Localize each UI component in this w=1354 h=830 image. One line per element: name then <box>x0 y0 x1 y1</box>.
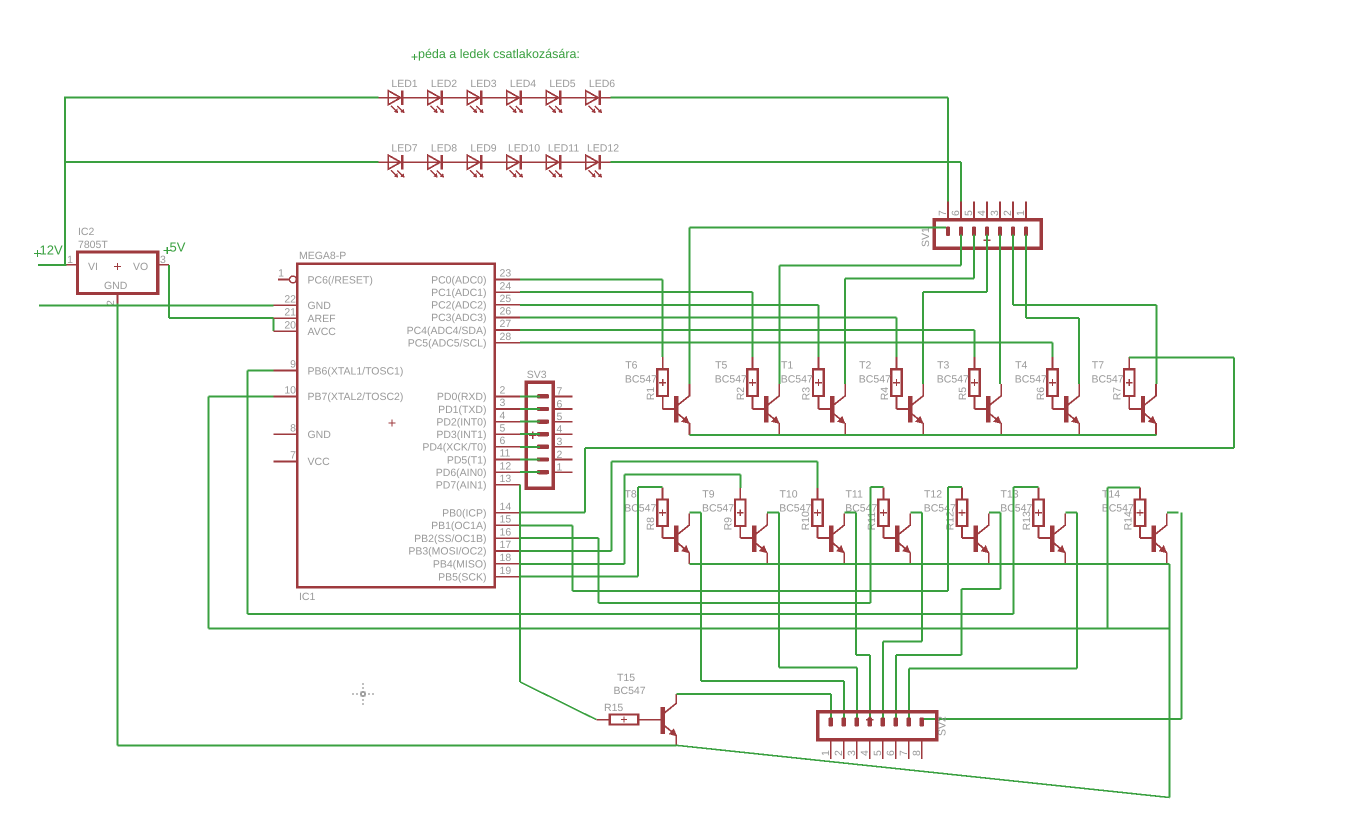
wire PB0 net to R7 (long loop) <box>520 512 585 514</box>
pin 23 stub (IC1 right) <box>495 268 520 280</box>
wire PB4 net to R9 <box>520 563 624 565</box>
svg-text:R8: R8 <box>645 517 657 531</box>
pin 11 stub (IC1 right) <box>495 448 520 460</box>
svg-text:PD5(T1): PD5(T1) <box>447 454 487 466</box>
pin 15 stub (IC1 right) <box>495 514 520 526</box>
wire net PC2 horizontal <box>520 304 818 306</box>
pin 26 stub (IC1 right) <box>495 306 520 318</box>
wire R9 to T9 base <box>739 525 741 538</box>
svg-text:LED9: LED9 <box>470 143 496 155</box>
svg-text:T6: T6 <box>625 359 637 371</box>
LED LED2 <box>428 78 457 113</box>
transistor T8 BC547 <box>674 513 690 564</box>
svg-text:péda a ledek csatlakozására:: péda a ledek csatlakozására: <box>418 47 580 61</box>
svg-text:BC547: BC547 <box>845 503 877 515</box>
pin 20 stub (IC1 left) <box>273 319 297 331</box>
svg-text:T2: T2 <box>859 359 871 371</box>
svg-text:BC547: BC547 <box>1092 374 1124 386</box>
wire PB7 net to R14 <box>209 395 274 397</box>
pin stub SV3 right <box>553 395 572 397</box>
pin stub R6 top <box>1052 357 1054 369</box>
wire IC1 to SV3 <box>520 408 540 410</box>
LED LED4 <box>507 78 536 113</box>
svg-text:SV3: SV3 <box>527 369 547 381</box>
pin 16 stub (IC1 right) <box>495 526 520 538</box>
svg-text:PB5(SCK): PB5(SCK) <box>438 571 486 583</box>
pin stub SV3 right <box>553 433 572 435</box>
pin stub SV2 <box>882 740 884 759</box>
label T5 <box>715 359 747 385</box>
wire SV1 pin2 to T7 collector <box>1012 235 1014 306</box>
wire T8 collector jog <box>689 511 701 513</box>
wire R10 to T10 base <box>817 525 819 538</box>
svg-text:R5: R5 <box>957 387 969 401</box>
svg-text:T5: T5 <box>715 359 727 371</box>
wire PB3 net to R10 <box>520 550 611 552</box>
LED LED12 <box>586 143 619 178</box>
resistor R5 <box>957 369 980 400</box>
svg-text:R9: R9 <box>723 517 735 531</box>
LED LED7 <box>388 143 417 178</box>
LED LED1 <box>388 78 417 113</box>
svg-text:14: 14 <box>500 501 512 513</box>
wire T10 collector to SV2 pin4 <box>855 512 857 655</box>
pin stub SV2 <box>908 740 910 759</box>
svg-text:LED1: LED1 <box>391 78 417 90</box>
pin stub SV1-3 <box>999 201 1001 220</box>
pin stub SV3 right <box>553 459 572 461</box>
svg-text:PC6(/RESET): PC6(/RESET) <box>308 274 373 286</box>
wire net PC1 drop to R2 <box>752 292 754 357</box>
pin stub R2 top <box>752 357 754 369</box>
pin 18 stub (IC1 right) <box>495 552 520 564</box>
resistor R2 <box>735 369 758 400</box>
wire SV1 pin5 to T1 collector <box>973 235 975 279</box>
svg-text:BC547: BC547 <box>625 374 657 386</box>
wire row2 emitter bus <box>689 563 1169 565</box>
svg-text:BC547: BC547 <box>715 374 747 386</box>
wire R8 to T8 base <box>662 525 664 538</box>
svg-text:BC547: BC547 <box>779 503 811 515</box>
wire IC1 to SV3 <box>520 459 540 461</box>
wire T14 collector to SV2 pin8 <box>1181 512 1183 719</box>
pin 4 stub (IC1 right) <box>495 410 520 422</box>
svg-text:PC5(ADC5/SCL): PC5(ADC5/SCL) <box>408 337 487 349</box>
wire SV1 pin6 to T5 collector <box>960 235 962 266</box>
svg-text:24: 24 <box>500 280 512 292</box>
wire SV1 pin3 to T3 collector <box>999 235 1001 385</box>
pin stub SV2 <box>869 740 871 759</box>
svg-text:PC2(ADC2): PC2(ADC2) <box>431 300 486 312</box>
pin stub R4 top <box>896 357 898 369</box>
wire LED row2 left <box>65 161 378 163</box>
pin stub SV2 <box>843 740 845 759</box>
svg-text:PD2(INT0): PD2(INT0) <box>436 416 486 428</box>
connector SV3 <box>526 369 562 488</box>
svg-text:PD3(INT1): PD3(INT1) <box>436 429 486 441</box>
wire LED row1 chain (red) <box>378 97 610 99</box>
pin stub R12 top <box>961 488 963 500</box>
svg-text:3: 3 <box>500 397 506 409</box>
svg-text:T14: T14 <box>1102 488 1120 500</box>
svg-text:4: 4 <box>500 410 506 422</box>
svg-text:7: 7 <box>290 450 296 462</box>
svg-text:26: 26 <box>500 306 512 318</box>
svg-text:SV2: SV2 <box>937 716 949 736</box>
wire 12V to IC2 VI <box>38 264 67 266</box>
pin stub IC2 GND <box>117 294 119 304</box>
pin 28 stub (IC1 right) <box>495 331 520 343</box>
label T7 <box>1092 359 1124 385</box>
svg-text:GND: GND <box>308 429 332 441</box>
wire LED row1 to SV1 pin7 <box>947 98 949 202</box>
label T14 <box>1102 488 1134 514</box>
transistor T1 BC547 <box>830 384 846 435</box>
pin stub SV3 right <box>553 446 572 448</box>
label T13 <box>1000 488 1032 514</box>
svg-text:6: 6 <box>500 435 506 447</box>
svg-text:28: 28 <box>500 331 512 343</box>
svg-text:LED8: LED8 <box>431 143 457 155</box>
svg-text:PD7(AIN1): PD7(AIN1) <box>436 480 487 492</box>
svg-text:GND: GND <box>104 280 128 292</box>
wire net PC5 drop to R6 <box>1052 343 1054 358</box>
LED LED10 <box>507 143 540 178</box>
pin stub SV1-5 <box>973 201 975 220</box>
pin 8 stub (IC1 left) <box>273 422 297 434</box>
LED LED5 <box>546 78 575 113</box>
wire LED row1 right <box>610 97 948 99</box>
resistor R1 <box>645 369 668 400</box>
wire 5V vertical <box>168 265 170 318</box>
wire T10 collector jog <box>844 511 856 513</box>
pin 27 stub (IC1 right) <box>495 318 520 330</box>
svg-text:10: 10 <box>284 385 296 397</box>
IC1 right pin names <box>407 274 487 583</box>
wire T13 collector jog <box>1065 511 1077 513</box>
resistor R7 <box>1112 369 1135 400</box>
wire AREF to AVCC jog <box>272 318 274 331</box>
label T11 <box>845 488 877 514</box>
mouse cursor crosshair <box>352 683 374 705</box>
svg-text:9: 9 <box>290 359 296 371</box>
wire T13 collector to SV2 pin7 <box>1076 512 1078 668</box>
resistor R15 <box>604 702 638 725</box>
svg-text:BC547: BC547 <box>924 503 956 515</box>
svg-text:LED12: LED12 <box>587 143 619 155</box>
pin 6 stub (IC1 right) <box>495 435 520 447</box>
svg-text:PD0(RXD): PD0(RXD) <box>437 391 487 403</box>
pin stub R14 top <box>1139 488 1141 500</box>
pin stub SV3 right <box>553 471 572 473</box>
svg-text:PD4(XCK/T0): PD4(XCK/T0) <box>422 442 486 454</box>
wire PB1 net to R12 <box>520 524 572 526</box>
wire SV1 pin7 to T6 collector <box>689 226 945 228</box>
svg-text:27: 27 <box>500 318 512 330</box>
svg-text:VI: VI <box>88 261 98 273</box>
connector SV1 <box>920 210 1041 248</box>
transistor T11 BC547 <box>895 513 911 564</box>
transistor T13 BC547 <box>1050 513 1066 564</box>
svg-text:21: 21 <box>284 306 296 318</box>
svg-text:GND: GND <box>308 300 332 312</box>
IC1 left pin names <box>308 274 404 468</box>
wire T11 collector to SV2 pin5 <box>921 512 923 641</box>
pin 7 stub (IC1 left) <box>273 450 297 462</box>
svg-text:BC547: BC547 <box>624 503 656 515</box>
pin 22 stub (IC1 left) <box>273 294 297 306</box>
pin stub SV1-1 <box>1025 201 1027 220</box>
connector SV2 <box>818 712 949 756</box>
label T9 <box>702 488 734 514</box>
svg-text:17: 17 <box>500 539 512 551</box>
wire net PC3 horizontal <box>520 316 896 318</box>
svg-text:R15: R15 <box>604 702 623 714</box>
transistor T3 BC547 <box>986 384 1002 435</box>
microcontroller IC1 MEGA8-P body <box>297 250 494 603</box>
label T2 <box>859 359 891 385</box>
wire net PC5 horizontal <box>520 342 1052 344</box>
pin stub SV2 <box>921 740 923 759</box>
pin stub R11 top <box>883 488 885 500</box>
label T8 <box>624 488 656 514</box>
wire R11 to T11 base <box>883 525 885 538</box>
svg-text:SV1: SV1 <box>920 227 932 247</box>
svg-text:PB0(ICP): PB0(ICP) <box>442 508 486 520</box>
svg-text:PB1(OC1A): PB1(OC1A) <box>431 520 486 532</box>
wire IC1 to SV3 <box>520 421 540 423</box>
wire R12 to T12 base <box>961 525 963 538</box>
transistor T12 BC547 <box>974 513 990 564</box>
wire LED row2 to SV1 pin6 <box>960 162 962 201</box>
pin stub SV2 <box>856 740 858 759</box>
LED LED11 <box>546 143 579 178</box>
pin stub SV2 <box>830 740 832 759</box>
svg-text:23: 23 <box>500 268 512 280</box>
wire T8 collector to SV2 pin2 <box>700 512 702 681</box>
wire LED row2 right <box>610 161 961 163</box>
resistor R4 <box>879 369 902 400</box>
svg-text:IC2: IC2 <box>78 226 95 238</box>
svg-text:LED4: LED4 <box>510 78 536 90</box>
svg-text:R7: R7 <box>1112 387 1124 401</box>
svg-text:BC547: BC547 <box>781 374 813 386</box>
pin 5 stub (IC1 right) <box>495 422 520 434</box>
wire GND vertical long <box>117 303 119 745</box>
wire T15 collector to SV2 pin1 <box>676 693 831 695</box>
pin stub SV1-6 <box>960 201 962 220</box>
pin stub R7 top <box>1128 357 1130 369</box>
svg-text:PC0(ADC0): PC0(ADC0) <box>431 274 486 286</box>
wire T14 collector jog <box>1167 511 1179 513</box>
wire R1 to T6 base <box>662 396 664 409</box>
wire LED row2 chain (red) <box>378 161 610 163</box>
pin stub R8 top <box>662 488 664 500</box>
wire GND rail horizontal <box>39 304 274 306</box>
pin stub SV1-4 <box>986 201 988 220</box>
wire R5 to T3 base <box>974 396 976 409</box>
wire R13 to T13 base <box>1038 525 1040 538</box>
svg-text:T9: T9 <box>702 488 714 500</box>
resistor R13 <box>1021 499 1044 530</box>
svg-text:13: 13 <box>500 473 512 485</box>
pin 3 stub (IC1 right) <box>495 397 520 409</box>
wire T12 collector jog <box>989 511 1001 513</box>
label T3 <box>937 359 969 385</box>
svg-text:PB3(MOSI/OC2): PB3(MOSI/OC2) <box>408 546 486 558</box>
svg-text:T11: T11 <box>846 488 863 500</box>
svg-text:5: 5 <box>500 422 506 434</box>
svg-text:T12: T12 <box>924 488 942 500</box>
wire row1 emitter bus <box>689 434 1156 436</box>
svg-text:T15: T15 <box>617 672 635 684</box>
resistor R8 <box>645 499 668 530</box>
svg-text:LED6: LED6 <box>589 78 615 90</box>
wire R7 to T7 base <box>1128 396 1130 409</box>
wire net PC4 drop to R5 <box>974 330 976 357</box>
svg-text:1: 1 <box>278 268 284 280</box>
resistor R10 <box>800 499 823 530</box>
schematic title text <box>412 47 580 61</box>
pin 2 stub (IC1 right) <box>495 385 520 397</box>
svg-text:19: 19 <box>500 565 512 577</box>
pin 21 stub (IC1 left) <box>273 306 297 318</box>
resistor R12 <box>944 499 967 530</box>
svg-text:LED10: LED10 <box>508 143 540 155</box>
pin stub SV1-7 <box>947 201 949 220</box>
resistor R11 <box>866 499 889 530</box>
wire IC1 to SV3 <box>520 471 540 473</box>
svg-text:T13: T13 <box>1001 488 1019 500</box>
supply +5V symbol <box>164 240 186 255</box>
wire 5V to AREF <box>169 317 274 319</box>
wire net PC1 horizontal <box>520 291 752 293</box>
svg-text:BC547: BC547 <box>614 685 646 697</box>
svg-text:16: 16 <box>500 526 512 538</box>
LED LED9 <box>467 143 496 178</box>
pin 10 stub (IC1 left) <box>273 385 297 397</box>
LED LED3 <box>467 78 496 113</box>
wire R6 to T4 base <box>1052 396 1054 409</box>
pin stub R1 top <box>662 357 664 369</box>
svg-text:7805T: 7805T <box>78 239 108 251</box>
pin stub SV1-2 <box>1012 201 1014 220</box>
pin 24 stub (IC1 right) <box>495 280 520 292</box>
svg-text:PD1(TXD): PD1(TXD) <box>438 404 486 416</box>
pin stub R5 top <box>974 357 976 369</box>
svg-text:R4: R4 <box>879 387 891 401</box>
wire PD7 net to R15 <box>519 485 521 682</box>
svg-text:IC1: IC1 <box>299 591 316 603</box>
pin 14 stub (IC1 right) <box>495 501 520 513</box>
transistor T6 BC547 <box>674 384 690 435</box>
pin 9 stub (IC1 left) <box>273 359 297 371</box>
svg-text:LED7: LED7 <box>391 143 417 155</box>
svg-text:BC547: BC547 <box>859 374 891 386</box>
label T15 <box>614 672 646 697</box>
wire IC1 to SV3 <box>520 395 540 397</box>
transistor T14 BC547 <box>1152 513 1168 564</box>
svg-text:R3: R3 <box>801 387 813 401</box>
svg-text:T3: T3 <box>937 359 949 371</box>
svg-text:BC547: BC547 <box>1000 503 1032 515</box>
wire PB2 net to R11 <box>520 537 598 539</box>
label T4 <box>1015 359 1047 385</box>
transistor T5 BC547 <box>764 384 780 435</box>
svg-text:VCC: VCC <box>308 456 331 468</box>
label T6 <box>625 359 657 385</box>
resistor R14 <box>1122 499 1145 530</box>
wire net PC0 horizontal <box>520 279 662 281</box>
svg-text:MEGA8-P: MEGA8-P <box>299 250 346 262</box>
svg-text:25: 25 <box>500 293 512 305</box>
svg-text:LED5: LED5 <box>549 78 575 90</box>
svg-text:R1: R1 <box>645 387 657 401</box>
svg-text:BC547: BC547 <box>702 503 734 515</box>
pin 19 stub (IC1 right) <box>495 565 520 577</box>
svg-text:R6: R6 <box>1035 387 1047 401</box>
voltage regulator IC2 7805T <box>67 226 166 306</box>
LED LED6 <box>586 78 615 113</box>
pin stub SV3 right <box>553 421 572 423</box>
transistor T15 BC547 <box>638 694 677 745</box>
wire R3 to T1 base <box>817 396 819 409</box>
svg-text:BC547: BC547 <box>937 374 969 386</box>
wire R14 to T14 base <box>1139 525 1141 538</box>
label T10 <box>779 488 811 514</box>
svg-text:12V: 12V <box>40 243 63 258</box>
pin 13 stub (IC1 right) <box>495 473 520 485</box>
pin 25 stub (IC1 right) <box>495 293 520 305</box>
svg-text:12: 12 <box>500 460 512 472</box>
pin stub SV2 <box>895 740 897 759</box>
svg-text:PC4(ADC4/SDA): PC4(ADC4/SDA) <box>407 325 487 337</box>
transistor T2 BC547 <box>908 384 924 435</box>
wire LED row1 left <box>65 97 378 99</box>
pin stub R13 top <box>1038 488 1040 500</box>
wire IC1 to SV3 <box>520 446 540 448</box>
svg-text:R2: R2 <box>735 387 747 401</box>
svg-text:20: 20 <box>284 319 296 331</box>
wire PB6 net to R13 <box>248 370 274 372</box>
transistor T10 BC547 <box>829 513 845 564</box>
wire T11 collector jog <box>910 511 922 513</box>
svg-text:T1: T1 <box>781 359 793 371</box>
svg-text:11: 11 <box>500 448 511 460</box>
wire GND diagonal to bottom right <box>676 745 1169 797</box>
svg-text:PC1(ADC1): PC1(ADC1) <box>431 287 486 299</box>
wire net PC4 horizontal <box>520 329 974 331</box>
wire GND bottom rail <box>118 744 677 746</box>
svg-text:T7: T7 <box>1092 359 1104 371</box>
pin 17 stub (IC1 right) <box>495 539 520 551</box>
wire T9 collector jog <box>767 511 779 513</box>
transistor T4 BC547 <box>1064 384 1080 435</box>
svg-text:8: 8 <box>290 422 296 434</box>
svg-text:LED11: LED11 <box>548 143 579 155</box>
supply +12V symbol <box>34 243 63 258</box>
transistor T9 BC547 <box>752 513 768 564</box>
wire T12 collector to SV2 pin6 <box>1000 512 1002 589</box>
resistor R6 <box>1035 369 1058 400</box>
svg-text:AVCC: AVCC <box>308 326 337 338</box>
label T1 <box>781 359 813 385</box>
wire GND riser right to row2 emitter bus <box>1169 564 1171 797</box>
wire SV1 pin1 to T4 collector <box>1025 235 1027 319</box>
pin stub R15 left <box>596 719 610 721</box>
pin stub IC2 VI <box>67 264 78 266</box>
pin stub SV3 right <box>553 408 572 410</box>
